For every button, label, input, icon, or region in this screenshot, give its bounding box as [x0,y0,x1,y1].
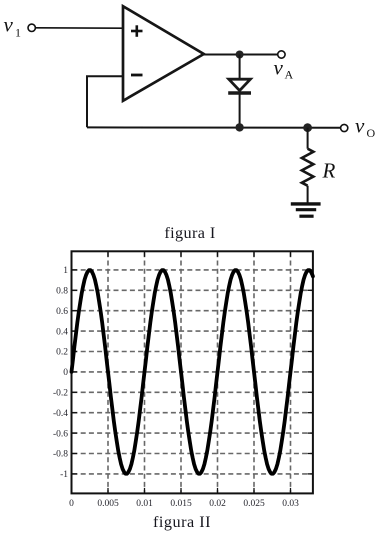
svg-text:1: 1 [15,26,21,40]
waveform sine curve [72,270,313,474]
y tick labels [53,266,68,480]
ground [291,204,321,216]
node vA [274,51,294,82]
svg-text:0.03: 0.03 [282,499,299,509]
svg-text:-0.2: -0.2 [53,389,68,399]
wire diode branch vertical [239,55,241,128]
node junction at diode anode [236,51,244,59]
svg-text:O: O [367,126,376,140]
wire rail to resistor [307,128,309,149]
wire resistor to ground [307,186,309,204]
svg-text:0.005: 0.005 [97,499,119,509]
svg-text:0.8: 0.8 [56,287,68,297]
node v1 [4,13,36,40]
svg-text:0.2: 0.2 [56,348,68,358]
svg-text:-0.6: -0.6 [53,429,68,439]
node junction diode-rail [235,123,243,131]
svg-text:A: A [285,68,294,82]
node vO [341,114,376,141]
svg-text:0.02: 0.02 [209,499,226,509]
svg-text:v: v [355,114,365,138]
axis ticks [72,251,313,493]
svg-text:0: 0 [69,499,74,509]
svg-text:0.025: 0.025 [243,499,265,509]
svg-text:0.01: 0.01 [136,499,153,509]
grid vertical dashed [108,252,291,492]
wire output from op-amp [204,54,278,56]
node junction resistor-rail [303,123,312,132]
plot axes box [72,251,313,493]
svg-text:-1: -1 [60,470,68,480]
svg-text:v: v [274,56,284,80]
grid horizontal dashed [73,270,312,474]
svg-text:-0.4: -0.4 [53,409,68,419]
svg-text:R: R [322,159,336,183]
svg-text:0.6: 0.6 [56,307,68,317]
wire bottom rail [87,126,341,128]
svg-text:figura II: figura II [153,513,211,531]
svg-text:1: 1 [63,266,68,276]
wire feedback from inverting pin [87,76,123,127]
svg-text:0.4: 0.4 [56,327,68,337]
op-amp U1 [123,6,204,101]
resistor R [302,149,314,186]
diode D1 [228,79,251,93]
svg-text:-0.8: -0.8 [53,450,68,460]
svg-text:figura I: figura I [164,224,215,242]
svg-text:0: 0 [63,368,68,378]
svg-text:v: v [4,13,14,37]
svg-text:0.015: 0.015 [170,499,192,509]
x tick labels [69,499,299,509]
wire input to op-amp non-inverting pin [35,27,123,29]
